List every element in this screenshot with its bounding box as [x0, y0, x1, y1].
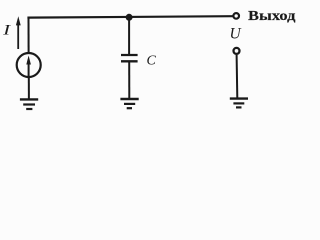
wire capacitor to ground — [128, 61, 130, 98]
output terminal top — [233, 13, 239, 19]
current source I1 — [17, 53, 41, 77]
svg-text:Выход: Выход — [248, 8, 296, 23]
wire current source to ground — [28, 77, 30, 99]
ground under capacitor — [120, 99, 138, 108]
capacitor C plates — [121, 55, 138, 61]
current source arrow — [26, 56, 31, 79]
node junction dot — [126, 14, 133, 21]
ground under current source — [20, 99, 38, 109]
wire bottom terminal to ground — [236, 55, 239, 98]
svg-text:U: U — [230, 25, 243, 42]
ground under output terminal — [230, 99, 248, 108]
wire left branch to current source — [28, 17, 30, 53]
output terminal bottom — [234, 48, 240, 54]
wire top bus — [27, 16, 232, 17]
current direction arrow by label I — [16, 16, 21, 49]
svg-text:C: C — [147, 54, 157, 69]
wire junction to capacitor — [128, 17, 130, 54]
